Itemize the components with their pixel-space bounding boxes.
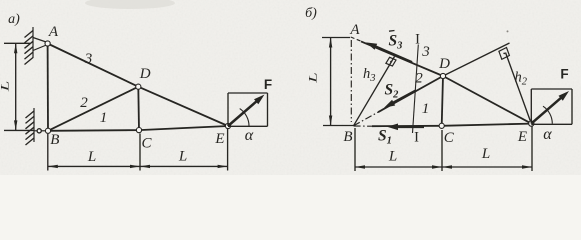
svg-text:L: L (178, 149, 187, 165)
svg-text:L: L (388, 149, 397, 165)
svg-text:1: 1 (100, 110, 108, 126)
svg-text:E: E (517, 129, 527, 145)
svg-text:3: 3 (84, 51, 93, 67)
svg-text:A: A (349, 22, 360, 38)
svg-text:3: 3 (421, 44, 430, 60)
svg-text:C: C (444, 130, 455, 146)
svg-text:B: B (50, 132, 59, 148)
svg-text:I: I (415, 32, 420, 48)
svg-text:L: L (307, 72, 319, 84)
svg-text:L: L (481, 146, 490, 162)
svg-text:α: α (543, 126, 552, 143)
svg-text:I: I (414, 130, 419, 146)
svg-text:2: 2 (415, 71, 423, 87)
svg-text:A: A (48, 24, 59, 40)
svg-text:1: 1 (422, 101, 430, 117)
svg-text:б): б) (305, 6, 317, 21)
svg-text:F: F (560, 67, 568, 82)
svg-text:L: L (87, 149, 96, 165)
svg-text:C: C (141, 136, 152, 152)
svg-text:B: B (343, 129, 352, 145)
svg-text:D: D (438, 56, 450, 72)
svg-text:F: F (264, 77, 272, 92)
svg-text:α: α (245, 127, 254, 144)
svg-text:2: 2 (80, 95, 88, 111)
svg-text:а): а) (8, 12, 20, 27)
svg-text:E: E (214, 131, 224, 147)
svg-text:D: D (139, 66, 151, 82)
svg-text:L: L (0, 81, 11, 93)
